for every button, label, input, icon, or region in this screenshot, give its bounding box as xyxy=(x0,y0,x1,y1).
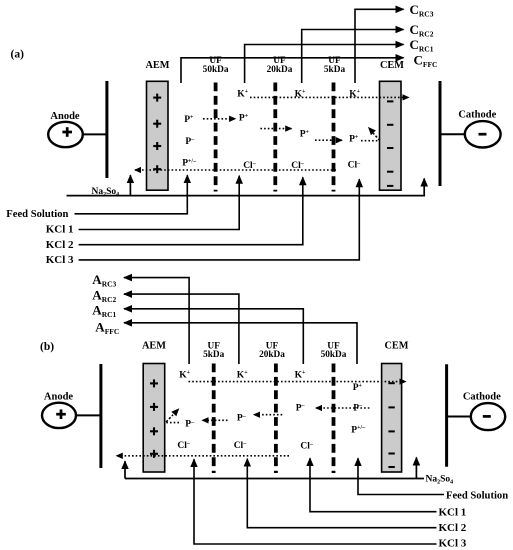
svg-text:P–: P– xyxy=(237,413,247,423)
svg-text:P+/–: P+/– xyxy=(351,425,366,435)
svg-text:Anode: Anode xyxy=(50,111,80,122)
svg-text:Feed Solution: Feed Solution xyxy=(446,491,508,502)
svg-text:CEM: CEM xyxy=(380,60,404,71)
svg-text:Cathode: Cathode xyxy=(463,392,501,403)
svg-text:KCl 3: KCl 3 xyxy=(439,537,467,549)
svg-text:5kDa: 5kDa xyxy=(324,65,346,75)
svg-text:K+: K+ xyxy=(237,89,248,99)
svg-text:KCl 3: KCl 3 xyxy=(46,254,74,266)
svg-text:Feed Solution: Feed Solution xyxy=(6,209,68,220)
svg-text:AEM: AEM xyxy=(142,340,166,351)
svg-text:P–: P– xyxy=(185,137,195,147)
svg-text:CFFC: CFFC xyxy=(414,53,438,70)
svg-text:P–: P– xyxy=(185,419,195,429)
svg-text:Cl–: Cl– xyxy=(300,441,314,451)
svg-text:50kDa: 50kDa xyxy=(321,350,347,360)
svg-text:(a): (a) xyxy=(11,49,25,61)
svg-text:ARC1: ARC1 xyxy=(92,302,116,319)
svg-text:CEM: CEM xyxy=(384,340,408,351)
svg-text:20kDa: 20kDa xyxy=(267,65,293,75)
svg-text:P+: P+ xyxy=(184,115,194,125)
svg-text:P+/–: P+/– xyxy=(182,158,197,168)
svg-text:Na2So4: Na2So4 xyxy=(92,187,120,198)
svg-text:KCl 1: KCl 1 xyxy=(439,506,467,518)
svg-text:K+: K+ xyxy=(237,370,248,380)
svg-text:AEM: AEM xyxy=(145,60,169,71)
svg-text:5kDa: 5kDa xyxy=(203,350,225,360)
svg-text:KCl 2: KCl 2 xyxy=(46,239,74,251)
svg-text:P+: P+ xyxy=(239,113,249,123)
svg-text:(b): (b) xyxy=(40,341,54,353)
svg-text:P+: P+ xyxy=(300,129,310,139)
svg-text:Na2So4: Na2So4 xyxy=(426,474,454,485)
svg-text:Cl–: Cl– xyxy=(177,441,191,451)
svg-text:20kDa: 20kDa xyxy=(259,350,285,360)
svg-text:CRC1: CRC1 xyxy=(410,37,434,54)
svg-text:P–: P– xyxy=(296,403,306,413)
svg-text:ARC3: ARC3 xyxy=(92,272,116,289)
svg-text:P+: P+ xyxy=(353,383,363,393)
svg-text:Cathode: Cathode xyxy=(458,110,496,121)
svg-text:K+: K+ xyxy=(179,370,190,380)
svg-text:Anode: Anode xyxy=(44,391,74,402)
svg-text:Cl–: Cl– xyxy=(348,161,362,171)
svg-text:P+: P+ xyxy=(349,134,359,144)
svg-text:KCl 1: KCl 1 xyxy=(46,224,74,236)
svg-text:Cl–: Cl– xyxy=(234,441,248,451)
svg-text:K+: K+ xyxy=(295,370,306,380)
svg-text:AFFC: AFFC xyxy=(95,320,119,337)
svg-text:50kDa: 50kDa xyxy=(203,65,229,75)
svg-text:KCl 2: KCl 2 xyxy=(439,522,467,534)
svg-text:CRC3: CRC3 xyxy=(410,2,434,19)
svg-text:K+: K+ xyxy=(295,89,306,99)
